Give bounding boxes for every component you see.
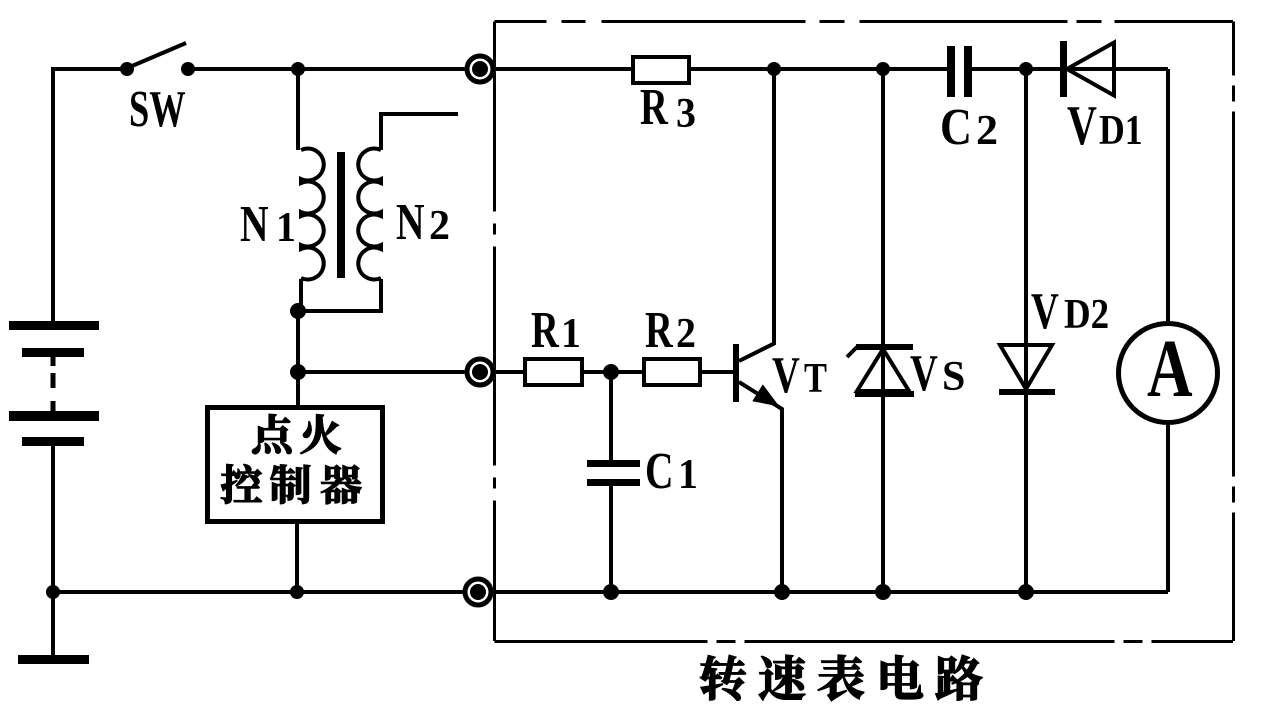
svg-text:2: 2 bbox=[976, 108, 998, 154]
node controller-bottom junction bbox=[290, 585, 304, 599]
wire N2 top lead bbox=[381, 114, 458, 150]
svg-text:D1: D1 bbox=[1099, 107, 1143, 153]
resistor R1 bbox=[525, 359, 582, 385]
capacitor C1 bbox=[609, 372, 613, 460]
svg-text:N: N bbox=[396, 193, 425, 250]
text huo bbox=[301, 415, 341, 454]
node junction top of transformer bbox=[291, 62, 305, 76]
text 电 bbox=[881, 655, 923, 699]
svg-text:V: V bbox=[1067, 94, 1097, 157]
node transformer bottom junction bbox=[290, 303, 306, 319]
wire battery positive up to switch bbox=[53, 69, 127, 321]
ignition controller box bbox=[208, 408, 383, 522]
text 速 bbox=[759, 655, 805, 700]
svg-text:C: C bbox=[940, 99, 972, 156]
wire R1 to R2 bbox=[582, 370, 644, 374]
transformer core bbox=[337, 152, 345, 278]
node battery-bottom junction bbox=[46, 585, 60, 599]
wire junction down through middle node to controller box bbox=[296, 311, 300, 405]
transformer secondary coil N2 bbox=[358, 149, 381, 280]
terminal T3 bbox=[463, 577, 494, 608]
text 路 bbox=[936, 655, 982, 700]
svg-text:S: S bbox=[942, 354, 965, 400]
wire N1 bottom to junction bbox=[298, 279, 301, 311]
node collector branch bbox=[767, 62, 781, 76]
wire VD1 to ammeter branch corner bbox=[1166, 69, 1170, 323]
svg-text:N: N bbox=[240, 195, 269, 252]
svg-text:C: C bbox=[645, 442, 674, 499]
svg-text:2: 2 bbox=[429, 203, 450, 249]
wire ammeter to bottom wire bbox=[1166, 423, 1170, 592]
svg-text:2: 2 bbox=[676, 309, 696, 356]
node VD2 branch bbox=[1019, 62, 1033, 76]
diode VD2 bbox=[1024, 69, 1028, 592]
tachometer circuit dash-dot frame bbox=[495, 22, 1234, 642]
wire C2 to VD1 bbox=[972, 67, 1060, 71]
diode VD1 bbox=[1060, 41, 1067, 97]
ground bbox=[18, 655, 89, 664]
terminal T1 bbox=[465, 54, 496, 85]
wire bottom left horizontal bbox=[53, 590, 478, 594]
wire bottom inside frame bbox=[478, 590, 1168, 594]
text 转 bbox=[700, 655, 745, 700]
zener diode VS bbox=[881, 69, 885, 592]
text kong bbox=[221, 464, 261, 503]
wire R2 to transistor base bbox=[700, 370, 733, 374]
svg-text:3: 3 bbox=[676, 89, 696, 136]
wire N2 bottom lead to junction bbox=[298, 279, 381, 311]
svg-text:A: A bbox=[1147, 322, 1193, 414]
ammeter A bbox=[1119, 324, 1218, 423]
text qi bbox=[321, 465, 361, 504]
svg-text:1: 1 bbox=[561, 309, 581, 356]
node C1 bottom bbox=[603, 584, 619, 600]
text zhi bbox=[271, 465, 310, 504]
text 表 bbox=[818, 655, 864, 701]
terminal T2 bbox=[465, 357, 496, 388]
svg-text:V: V bbox=[1031, 281, 1059, 339]
battery B bbox=[9, 321, 99, 446]
svg-text:D2: D2 bbox=[1064, 291, 1109, 338]
svg-text:V: V bbox=[772, 345, 800, 403]
node middle-wire junction bbox=[290, 364, 306, 380]
svg-text:T: T bbox=[804, 356, 827, 402]
svg-text:R: R bbox=[645, 300, 674, 358]
svg-text:1: 1 bbox=[678, 450, 698, 497]
wire middle horizontal to terminal T2 and R1 bbox=[298, 370, 525, 374]
wire R3 to C2 bbox=[689, 67, 947, 71]
wire switch to terminal T1 bbox=[188, 67, 633, 71]
switch SW bbox=[132, 43, 186, 66]
capacitor C2 bbox=[947, 46, 955, 97]
svg-text:R: R bbox=[640, 77, 669, 135]
node VS branch bbox=[876, 62, 890, 76]
wire terminal T1 to R3 bbox=[480, 67, 633, 71]
resistor R2 bbox=[644, 359, 700, 385]
transformer primary coil N1 bbox=[301, 149, 324, 280]
svg-text:1: 1 bbox=[276, 203, 296, 250]
node VD2 bottom bbox=[1018, 584, 1034, 600]
svg-text:SW: SW bbox=[129, 80, 186, 138]
transistor VT bbox=[733, 69, 782, 592]
wire controller to bottom wire bbox=[295, 522, 299, 592]
wire top junction down to N1 bbox=[296, 69, 300, 150]
node emitter bottom bbox=[774, 584, 790, 600]
node VS bottom bbox=[875, 584, 891, 600]
text dian bbox=[252, 414, 291, 454]
svg-text:V: V bbox=[910, 343, 938, 401]
wire battery negative down bbox=[51, 446, 55, 656]
resistor R3 bbox=[633, 57, 689, 83]
node C1 branch bbox=[603, 364, 619, 380]
svg-text:R: R bbox=[531, 300, 560, 358]
